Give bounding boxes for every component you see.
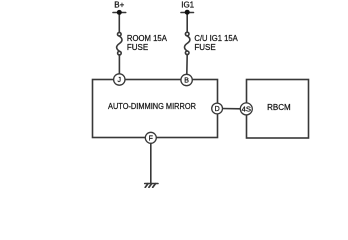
svg-text:ROOM 15A: ROOM 15A — [127, 34, 168, 43]
svg-text:B: B — [184, 78, 189, 85]
svg-text:IG1: IG1 — [181, 0, 194, 9]
svg-text:4S: 4S — [242, 106, 252, 113]
svg-text:F: F — [149, 135, 153, 142]
svg-text:J: J — [118, 77, 122, 84]
svg-text:RBCM: RBCM — [267, 103, 291, 112]
svg-text:C/U IG1 15A: C/U IG1 15A — [194, 34, 238, 43]
svg-text:FUSE: FUSE — [194, 43, 215, 52]
svg-text:B+: B+ — [114, 0, 124, 9]
svg-text:FUSE: FUSE — [127, 43, 148, 52]
svg-text:AUTO-DIMMING MIRROR: AUTO-DIMMING MIRROR — [108, 102, 196, 111]
svg-text:D: D — [215, 106, 220, 113]
